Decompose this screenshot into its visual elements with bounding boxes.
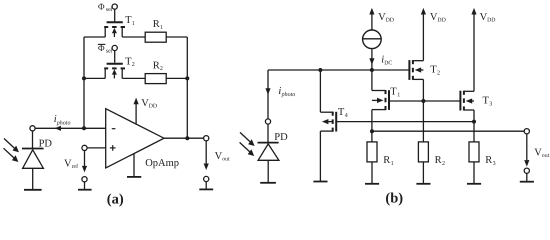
photodiode PD (b) (258, 119, 289, 183)
svg-text:out: out (542, 153, 550, 159)
svg-text:2: 2 (160, 66, 163, 72)
node gate bus junction (421, 99, 425, 103)
svg-text:3: 3 (489, 101, 492, 107)
node rail iDC junction (370, 68, 374, 72)
wire gate T1 (114, 9, 116, 21)
transistor T4 (313, 70, 347, 182)
wire non-inverting input (87, 147, 106, 149)
svg-text:photo: photo (56, 119, 71, 126)
svg-text:PD: PD (274, 132, 288, 143)
node junction T2 left (82, 76, 86, 80)
wire left feedback rail (83, 37, 85, 128)
svg-text:2: 2 (442, 161, 445, 167)
wire T2 drain to R2 (122, 77, 145, 79)
current arrow i_photo (b) (265, 86, 295, 98)
transistor T1 (b) (372, 70, 400, 110)
svg-text:2: 2 (437, 71, 440, 77)
svg-text:DD: DD (437, 18, 445, 24)
wire T1 source to left rail (84, 36, 105, 38)
resistor R3 (b) (467, 142, 496, 184)
wire current source to rail with i_DC arrow (369, 49, 392, 70)
terminal Phi_sel (98, 1, 117, 13)
svg-text:OpAmp: OpAmp (145, 158, 179, 169)
wire right feedback rail (186, 37, 188, 138)
svg-text:R: R (153, 60, 160, 71)
wire gate T2 (114, 51, 116, 63)
photodiode PD (22, 126, 52, 190)
svg-text:R: R (153, 19, 160, 30)
wire gate bus T1-T3 (389, 100, 460, 102)
svg-text:1: 1 (391, 161, 394, 167)
svg-text:3: 3 (493, 161, 496, 167)
wire T2 source to left rail (84, 77, 105, 79)
wire T1 source down to R1 (371, 110, 373, 142)
node inverting input junction (82, 126, 86, 130)
current arrow i_photo (54, 114, 71, 131)
transistor T2 (104, 56, 135, 78)
wire T3 drain to VDD 3 (471, 8, 495, 91)
wire R2 to right rail (166, 77, 187, 79)
node rail T4 junction (318, 68, 322, 72)
svg-text:R: R (435, 155, 442, 166)
svg-text:PD: PD (39, 138, 53, 149)
wire T3 source down to R3 (473, 110, 475, 142)
svg-text:1: 1 (132, 21, 135, 27)
node junction R2 right (185, 76, 189, 80)
wire T2 drain to VDD 2 (421, 8, 446, 61)
transistor T1 (104, 15, 135, 37)
terminal V_out (a) (199, 136, 230, 190)
svg-text:DD: DD (487, 18, 495, 24)
svg-text:2: 2 (132, 62, 135, 68)
node T3 source gate-line junction (472, 120, 476, 124)
node output line junction (370, 129, 374, 133)
wire V_DD 1 arrow (369, 8, 394, 30)
svg-text:sel: sel (106, 6, 113, 13)
terminal V_out (b) (520, 129, 550, 182)
wire photodiode to inverting input (35, 127, 106, 129)
wire op-amp output (164, 137, 204, 139)
svg-text:R: R (485, 155, 492, 166)
svg-text:Φ: Φ (98, 43, 105, 53)
resistor R1 (b) (365, 142, 394, 184)
wire T4 gate line (336, 121, 474, 123)
svg-text:1: 1 (160, 25, 163, 31)
svg-text:DC: DC (384, 60, 392, 66)
svg-text:photo: photo (281, 91, 296, 98)
svg-text:sel: sel (106, 48, 113, 55)
svg-text:(b): (b) (385, 191, 403, 207)
svg-text:out: out (222, 157, 230, 163)
svg-text:Φ: Φ (98, 1, 105, 11)
wire output line to V_out (372, 130, 524, 132)
wire R1 to right rail (166, 36, 187, 38)
ground op-amp (127, 154, 141, 177)
wire top rail (268, 69, 409, 71)
svg-text:DD: DD (386, 18, 394, 24)
transistor T2 (b) (409, 60, 440, 80)
svg-text:4: 4 (345, 113, 348, 119)
svg-text:ref: ref (72, 163, 79, 170)
resistor R2 (b) (416, 142, 445, 184)
light arrows PD (b) (240, 132, 255, 156)
svg-text:R: R (383, 155, 390, 166)
op-amp U1 (106, 109, 179, 169)
wire T1 drain to R1 (122, 36, 145, 38)
node output junction (185, 136, 189, 140)
resistor R1 (145, 19, 166, 42)
wire T2 source down to R2 (422, 79, 424, 141)
wire op-amp V_DD (134, 98, 158, 125)
svg-text:(a): (a) (107, 192, 124, 208)
resistor R2 (145, 60, 166, 83)
terminal V_ref (64, 145, 92, 189)
terminal Phi_sel_bar (98, 43, 117, 55)
svg-text:1: 1 (397, 92, 400, 98)
wire PD column drop (267, 70, 269, 119)
current source (363, 30, 382, 49)
svg-text:DD: DD (149, 104, 157, 110)
transistor T3 (460, 91, 492, 111)
light arrows PD (a) (4, 139, 20, 163)
